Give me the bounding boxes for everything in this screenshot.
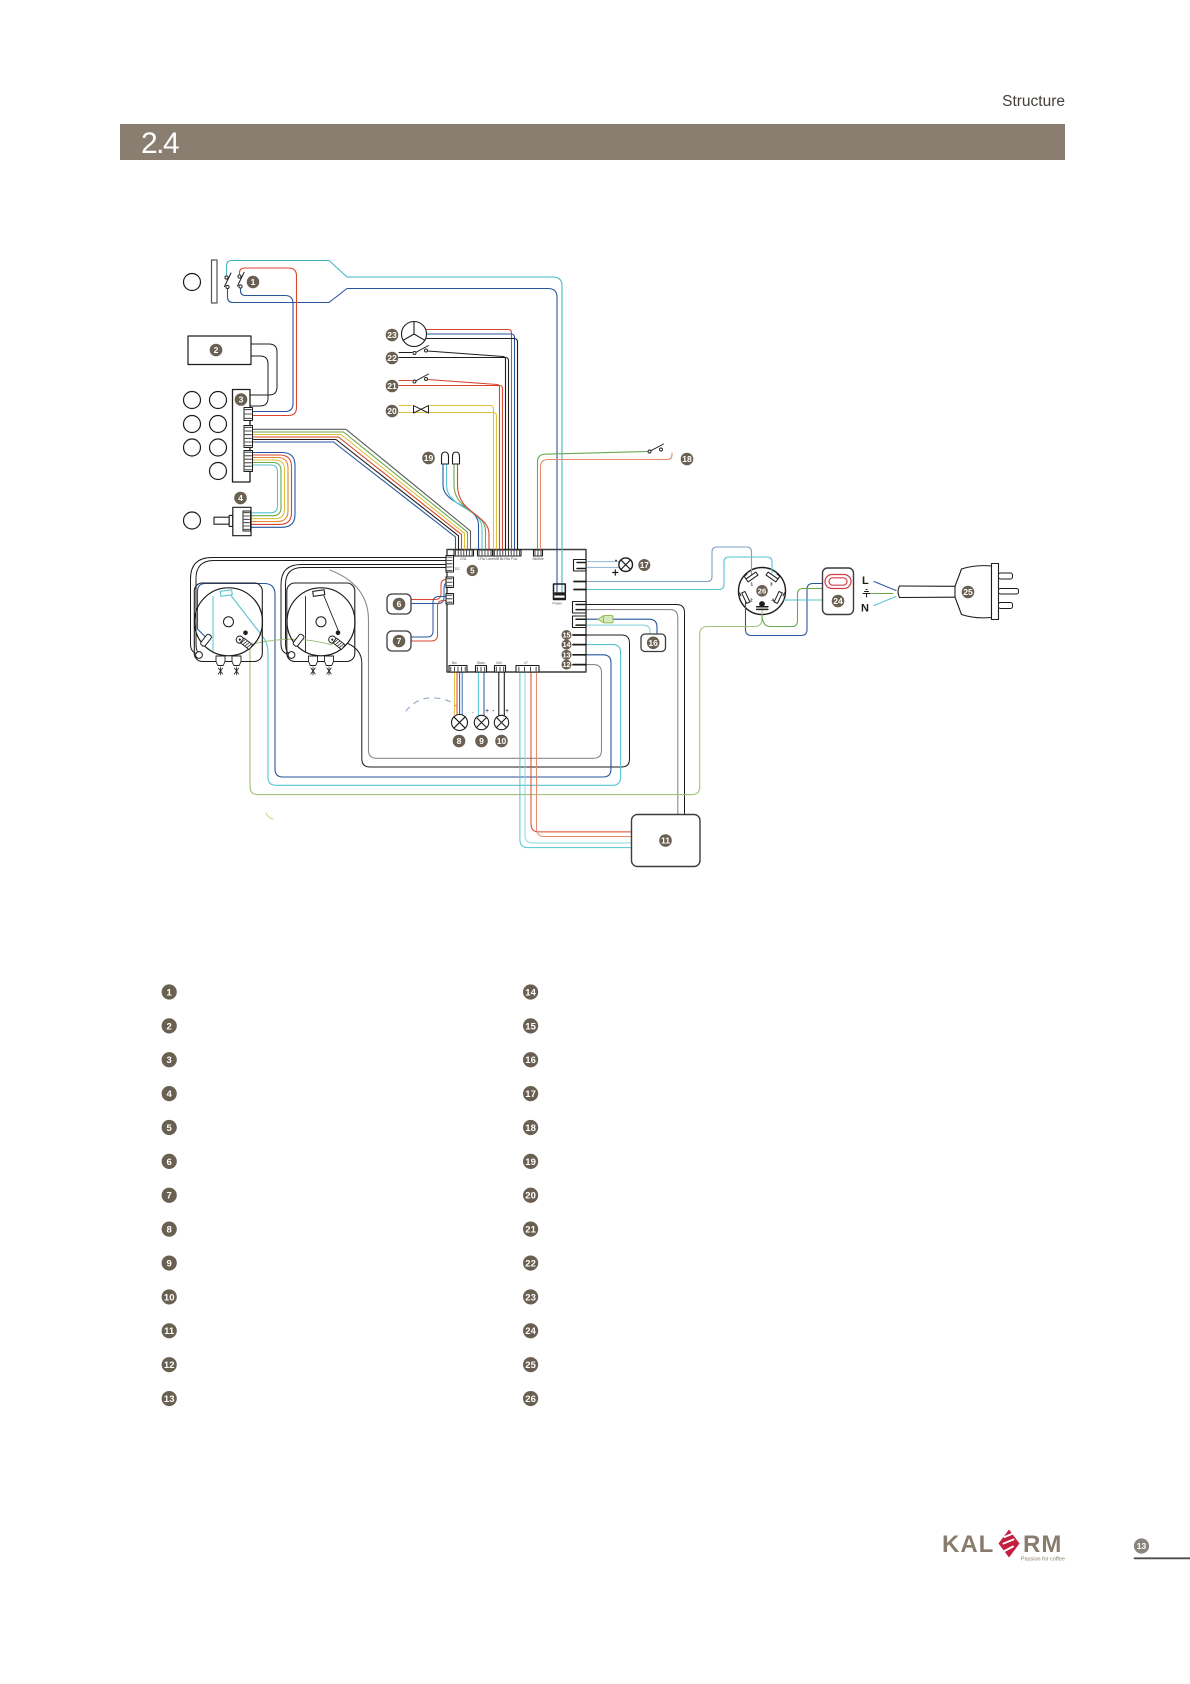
button circle bbox=[210, 416, 227, 433]
button circle bbox=[184, 416, 201, 433]
wire black DC to pump1 inner bbox=[196, 561, 447, 654]
svg-text:3: 3 bbox=[770, 582, 773, 587]
svg-text:23: 23 bbox=[525, 1292, 536, 1303]
legend item 26 bbox=[523, 1391, 538, 1406]
wire bundle connector3 to PCB CN1 bbox=[253, 435, 465, 553]
wire cyan pin14 wrap pump1 bbox=[231, 596, 621, 786]
pump P2 (right peristaltic pump) bbox=[287, 583, 355, 675]
green link pump1 clamp to pump2 clamp bbox=[252, 639, 332, 645]
legend item 11 bbox=[162, 1323, 177, 1338]
svg-text:Power: Power bbox=[553, 602, 563, 606]
wire bundle connector3 to PCB CN1 bbox=[253, 429, 471, 552]
legend item 13 bbox=[162, 1391, 177, 1406]
svg-text:DC: DC bbox=[455, 567, 460, 571]
legend item 19 bbox=[523, 1154, 538, 1169]
svg-text:.: . bbox=[472, 708, 474, 715]
legend item 22 bbox=[523, 1255, 538, 1270]
svg-text:21: 21 bbox=[525, 1225, 536, 1236]
svg-text:12: 12 bbox=[164, 1360, 175, 1371]
box 2 (brew unit drive) bbox=[188, 336, 251, 365]
wire blue Pw to box16 bbox=[612, 619, 657, 634]
wire black Tp to box11 bbox=[586, 605, 685, 815]
wire lightcyan Pw to box16 bbox=[586, 625, 650, 634]
pump P2 black interior line bbox=[305, 597, 307, 653]
socket 26 base circle bbox=[739, 568, 786, 615]
PCB bottom connector 24V bbox=[495, 666, 506, 673]
svg-text:N: N bbox=[861, 603, 869, 615]
legend item 25 bbox=[523, 1357, 538, 1372]
svg-text:15: 15 bbox=[525, 1021, 536, 1032]
wire bundle connector3 to PCB CN1 bbox=[253, 442, 456, 552]
svg-text:11: 11 bbox=[661, 836, 670, 846]
wire green ground lead bbox=[871, 593, 893, 595]
wire yellow to lamp8 bbox=[453, 671, 455, 715]
wire bundle connector3 to encoder4 bbox=[251, 460, 285, 519]
lamp 17 symbol bbox=[613, 558, 633, 575]
wire switch21 red upper bbox=[399, 380, 412, 382]
wire black DC to pump2 outer bbox=[281, 565, 447, 655]
legend item 15 bbox=[523, 1018, 538, 1033]
wire green PCB to switch18 bbox=[538, 452, 648, 552]
label 20 bbox=[386, 405, 399, 418]
svg-text:13: 13 bbox=[1137, 1541, 1147, 1551]
svg-text:19: 19 bbox=[525, 1157, 536, 1168]
svg-text:23: 23 bbox=[387, 330, 397, 340]
svg-text:22: 22 bbox=[525, 1258, 536, 1269]
svg-text:10: 10 bbox=[164, 1292, 175, 1303]
svg-text:14: 14 bbox=[563, 642, 571, 649]
svg-text:19: 19 bbox=[424, 453, 434, 463]
svg-text:CN1: CN1 bbox=[460, 557, 467, 561]
wire red box6 to PCB bbox=[411, 580, 446, 600]
PCB left connector DC bbox=[446, 556, 454, 573]
wire black DC to pump2 inner bbox=[286, 568, 448, 654]
svg-text:Bw: Bw bbox=[452, 661, 457, 665]
switch 18 contacts bbox=[648, 444, 664, 453]
wire bundle connector3 to encoder4 bbox=[251, 458, 288, 522]
valve 20 symbol bbox=[414, 406, 429, 413]
legend item 4 bbox=[162, 1086, 177, 1101]
PCB bottom tiny labels bbox=[452, 661, 528, 665]
Kalerm logo diamond bbox=[999, 1530, 1020, 1558]
legend item 23 bbox=[523, 1289, 538, 1304]
circle button top-left bbox=[184, 274, 201, 291]
PCB right connector lamp17 bbox=[574, 560, 587, 572]
wire bundle connector3 to encoder4 bbox=[251, 463, 281, 516]
fuse on Pw wire bbox=[598, 616, 613, 623]
wire blue L lead bbox=[874, 582, 896, 591]
svg-text:6: 6 bbox=[397, 599, 402, 609]
wire black box2 to connector3 upper bbox=[250, 344, 277, 395]
lamp 10 symbol bbox=[494, 715, 508, 729]
legend item 20 bbox=[523, 1188, 538, 1203]
box 11 bbox=[632, 815, 701, 867]
connector 3 pin block bottom bbox=[244, 451, 253, 472]
svg-text:2: 2 bbox=[750, 598, 753, 603]
svg-text:8: 8 bbox=[167, 1225, 172, 1236]
socket 26 slot 4 bbox=[774, 591, 784, 605]
wire switch22 black upper bbox=[399, 352, 412, 354]
wire gray pin12 wrap pump2 bbox=[330, 570, 602, 758]
svg-text:26: 26 bbox=[525, 1394, 536, 1405]
connector 3 pin block top bbox=[244, 408, 253, 421]
svg-text:4: 4 bbox=[238, 493, 243, 503]
wire switch21 red lower bbox=[399, 386, 503, 553]
PCB right pins RdoP bbox=[574, 582, 586, 590]
label 15 bbox=[562, 630, 572, 640]
footer rule bbox=[1135, 1557, 1190, 1559]
legend item 18 bbox=[523, 1120, 538, 1135]
svg-text:4: 4 bbox=[167, 1089, 173, 1100]
label 19 bbox=[422, 452, 435, 465]
svg-text:26: 26 bbox=[758, 587, 766, 596]
fan 23 symbol bbox=[402, 322, 427, 347]
label 5 bbox=[467, 565, 478, 576]
wire cyan to lamp9 bbox=[477, 671, 479, 716]
wire black to lamp10 bbox=[498, 671, 500, 716]
svg-text:20: 20 bbox=[525, 1191, 536, 1202]
svg-text:16: 16 bbox=[648, 638, 658, 648]
button circle bbox=[210, 439, 227, 456]
label 11 bbox=[659, 834, 672, 847]
legend item 21 bbox=[523, 1222, 538, 1237]
pump P2 black diagonal bbox=[324, 596, 340, 634]
connector 3 pin block mid bbox=[244, 426, 253, 448]
box 24 red ring bbox=[825, 575, 851, 589]
PCB top connector C bbox=[493, 550, 521, 556]
svg-text:11: 11 bbox=[164, 1326, 175, 1337]
legend item 24 bbox=[523, 1323, 538, 1338]
legend item 10 bbox=[162, 1289, 177, 1304]
label 6 bbox=[393, 598, 406, 611]
socket 26 slot 2 bbox=[740, 591, 750, 605]
wire bundle connector3 to encoder4 bbox=[251, 455, 292, 524]
legend item 14 bbox=[523, 984, 538, 999]
PCB power entry block bbox=[553, 584, 566, 606]
wire valve20 yellow upper bbox=[399, 405, 411, 407]
wire fan23 black bbox=[427, 339, 518, 553]
pump P1 cyan interior line bbox=[212, 597, 214, 653]
label 22 bbox=[386, 352, 399, 365]
svg-text:18: 18 bbox=[525, 1123, 536, 1134]
socket 26 pin numbers bbox=[750, 582, 775, 603]
svg-text:4: 4 bbox=[772, 598, 775, 603]
svg-text:Passion for coffee: Passion for coffee bbox=[1021, 1557, 1065, 1563]
svg-text:13: 13 bbox=[164, 1394, 175, 1405]
svg-text:24V: 24V bbox=[496, 661, 503, 665]
label 25 bbox=[962, 586, 975, 599]
svg-text:9: 9 bbox=[167, 1258, 172, 1269]
wire black pin15 wrap pump2 bbox=[348, 635, 630, 767]
wire red conn17 to box11 outer bbox=[537, 671, 632, 837]
label 3 bbox=[235, 393, 248, 406]
wire red switch1b to connector3 bbox=[240, 268, 297, 416]
button circle bbox=[210, 463, 227, 480]
box 7 bbox=[387, 631, 411, 651]
plug 25 pins bbox=[999, 573, 1019, 609]
PCB right connector Tp bbox=[573, 602, 587, 614]
svg-text:15: 15 bbox=[563, 633, 571, 640]
wire blue socket pin2 to box24 bbox=[746, 584, 823, 636]
legend item 12 bbox=[162, 1357, 177, 1372]
svg-text:-: - bbox=[492, 708, 495, 715]
svg-text:BkMole: BkMole bbox=[533, 557, 544, 561]
PCB left connector mid bbox=[446, 577, 454, 588]
label 10 bbox=[495, 735, 508, 748]
button circle bbox=[184, 439, 201, 456]
socket 26 ground pin bbox=[759, 601, 765, 607]
svg-text:+: + bbox=[505, 708, 509, 715]
svg-text:13: 13 bbox=[563, 652, 571, 659]
wire black box2 to connector3 lower bbox=[250, 356, 268, 406]
svg-text:MB Bt-Rlw F1w: MB Bt-Rlw F1w bbox=[494, 557, 518, 561]
wire dark blue flow-switch to PCB power bbox=[228, 289, 558, 593]
label 12 bbox=[562, 660, 572, 670]
legend item 2 bbox=[162, 1018, 177, 1033]
PCB top connector D bbox=[534, 550, 543, 556]
PCB right pins 12-15 bbox=[573, 635, 586, 665]
label 9 bbox=[475, 735, 488, 748]
label 23 bbox=[386, 329, 399, 342]
wire cyan N lead bbox=[874, 597, 896, 606]
svg-text:1: 1 bbox=[251, 277, 256, 287]
label 1 bbox=[247, 276, 260, 289]
wire LED19 blue bbox=[443, 464, 479, 552]
svg-text:5: 5 bbox=[167, 1123, 173, 1134]
svg-text:12: 12 bbox=[563, 662, 571, 669]
legend item 5 bbox=[162, 1120, 177, 1135]
PCB bottom connector Bw bbox=[449, 666, 467, 673]
lamp 17 wires bbox=[586, 561, 619, 563]
svg-text:1: 1 bbox=[167, 987, 173, 998]
lamp 8 symbol bbox=[452, 715, 468, 731]
PCB right connector Pw bbox=[573, 616, 587, 628]
svg-text:RM: RM bbox=[1023, 1531, 1062, 1558]
wire switch22 black lower bbox=[399, 358, 509, 553]
encoder 4 pin block bbox=[243, 511, 251, 531]
wire cyan conn17 to box11 outer bbox=[520, 671, 632, 848]
wire lightblue RdoP to socket pin1 bbox=[586, 547, 752, 582]
label 21 bbox=[386, 380, 399, 393]
wire bundle connector3 to encoder4 bbox=[251, 453, 295, 528]
wire blue Pw segment bbox=[586, 618, 598, 620]
wire blue to lamp9 bbox=[483, 671, 485, 716]
wire black DC to pump1 outer bbox=[191, 558, 448, 655]
wire blue box7 to PCB bbox=[411, 597, 446, 638]
label 18 bbox=[681, 453, 694, 466]
sensor bar bbox=[212, 260, 218, 303]
svg-text:6: 6 bbox=[167, 1157, 172, 1168]
wire green socket to box24 bbox=[762, 589, 823, 627]
scan artifact dashed arc bbox=[406, 698, 456, 711]
PCB left connector low bbox=[446, 594, 454, 605]
box 6 bbox=[387, 594, 411, 614]
encoder 4 body bbox=[233, 507, 251, 535]
wire valve20 yellow lower bbox=[399, 413, 497, 553]
plug 25 body bbox=[955, 564, 999, 620]
legend item 16 bbox=[523, 1052, 538, 1067]
label 2 bbox=[210, 344, 223, 357]
wire fan23 blue bbox=[427, 334, 515, 552]
wire blue to lamp8 bbox=[459, 671, 461, 715]
wire bundle connector3 to PCB CN1 bbox=[253, 432, 468, 552]
wire LED19 red bbox=[458, 464, 490, 552]
wire blue switch1b to connector3 bbox=[241, 289, 294, 412]
wire fan23 red bbox=[427, 330, 512, 553]
legend item 7 bbox=[162, 1188, 177, 1203]
wire blue2 to lamp8 bbox=[461, 671, 463, 715]
svg-text:22: 22 bbox=[387, 353, 397, 363]
svg-text:7: 7 bbox=[167, 1191, 172, 1202]
svg-text:9: 9 bbox=[479, 736, 484, 746]
wire LED19 cyan bbox=[447, 464, 483, 552]
wire blue box6 to PCB bbox=[411, 584, 446, 604]
svg-text:7: 7 bbox=[397, 636, 402, 646]
label 8 bbox=[453, 735, 466, 748]
label 17 bbox=[638, 559, 650, 571]
wire red to lamp8 bbox=[456, 671, 458, 715]
label 13 bbox=[562, 650, 572, 660]
label 14 bbox=[562, 640, 572, 650]
svg-text:25: 25 bbox=[525, 1360, 536, 1371]
wire LED19 green bbox=[454, 464, 486, 552]
svg-text:17: 17 bbox=[640, 561, 650, 570]
wire bundle connector3 to PCB CN1 bbox=[253, 440, 459, 553]
svg-text:20: 20 bbox=[387, 406, 397, 416]
page number circle 13 bbox=[1134, 1538, 1149, 1553]
lamp 9 symbol bbox=[474, 715, 488, 729]
svg-text:I-Flw Lane: I-Flw Lane bbox=[478, 557, 494, 561]
wire cyan socket pin4 to box24 bbox=[784, 599, 823, 601]
button circle bbox=[184, 512, 201, 529]
svg-text:10: 10 bbox=[497, 736, 507, 746]
legend item 3 bbox=[162, 1052, 177, 1067]
box 24 body bbox=[823, 568, 854, 615]
svg-text:+: + bbox=[485, 708, 489, 715]
scan artifact green tick bbox=[266, 813, 273, 819]
svg-text:1: 1 bbox=[751, 582, 754, 587]
PCB connector tiny labels bbox=[460, 557, 544, 561]
header label Structure bbox=[0, 93, 1065, 111]
svg-text:3: 3 bbox=[167, 1055, 172, 1066]
svg-text:8: 8 bbox=[457, 736, 462, 746]
svg-text:24: 24 bbox=[525, 1326, 536, 1337]
svg-text:3: 3 bbox=[239, 395, 244, 405]
wire blue pin13 wrap pump1 bbox=[198, 584, 612, 778]
encoder 4 shaft bbox=[214, 517, 229, 524]
wire red box7 to PCB bbox=[411, 601, 446, 642]
LED 19 left bbox=[442, 452, 449, 464]
wire bundle connector3 to encoder4 bbox=[251, 465, 278, 513]
svg-text:16: 16 bbox=[525, 1055, 536, 1066]
wire red conn17 to box11 inner bbox=[531, 671, 632, 832]
svg-text:5: 5 bbox=[470, 566, 475, 575]
wire black2 to lamp10 bbox=[503, 671, 505, 716]
svg-text:2: 2 bbox=[167, 1021, 172, 1032]
button circle bbox=[184, 392, 201, 409]
switch S1a contacts and lever bbox=[225, 273, 232, 289]
legend item 6 bbox=[162, 1154, 177, 1169]
wire bundle connector3 to PCB CN1 bbox=[253, 437, 462, 552]
legend item 9 bbox=[162, 1255, 177, 1270]
svg-text:17: 17 bbox=[525, 1089, 536, 1100]
wire gray Tp to box11 bbox=[586, 610, 678, 815]
svg-text:KAL: KAL bbox=[942, 1531, 994, 1558]
svg-text:14: 14 bbox=[525, 987, 536, 998]
wire cyan RdoP to socket pin3 bbox=[586, 557, 772, 590]
svg-text:18: 18 bbox=[682, 454, 692, 464]
label 7 bbox=[393, 635, 406, 648]
socket 26 slot 3 bbox=[766, 569, 780, 582]
section bar 2.4 bbox=[120, 124, 1065, 160]
encoder 4 shaft collar bbox=[229, 515, 233, 526]
PCB board 5 base bbox=[447, 550, 586, 673]
svg-text:L: L bbox=[862, 575, 869, 587]
switch S1b contacts and lever bbox=[238, 273, 245, 289]
ground symbol bbox=[863, 590, 870, 598]
svg-text:Stam: Stam bbox=[477, 661, 485, 665]
svg-text:17: 17 bbox=[524, 661, 528, 665]
label 24 bbox=[832, 595, 845, 608]
svg-text:21: 21 bbox=[387, 381, 397, 391]
button circle bbox=[210, 392, 227, 409]
wire cyan conn17 to box11 inner bbox=[525, 671, 632, 843]
svg-text:25: 25 bbox=[963, 587, 973, 597]
wire salmon switch18 return bbox=[541, 453, 673, 551]
plug 25 cable bbox=[898, 586, 955, 598]
socket 26 slot 1 bbox=[744, 569, 758, 582]
switch 22 contacts bbox=[413, 346, 429, 355]
svg-text:24: 24 bbox=[833, 596, 843, 606]
label 26 bbox=[756, 585, 768, 597]
legend item 17 bbox=[523, 1086, 538, 1101]
label 4 bbox=[234, 492, 247, 505]
label 16 bbox=[647, 637, 660, 650]
PCB bottom connector Stam bbox=[476, 666, 487, 673]
wire teal flow-switch to PCB power bbox=[227, 261, 563, 593]
connector panel 3 bbox=[233, 390, 251, 483]
switch 21 contacts bbox=[413, 374, 429, 383]
pump P1 (left peristaltic pump) bbox=[194, 583, 262, 675]
LED 19 right bbox=[453, 452, 460, 464]
PCB top connector CN1 bbox=[454, 550, 474, 556]
PCB top connector B bbox=[478, 550, 493, 556]
box 16 bbox=[641, 634, 666, 652]
wire green socket ground long bbox=[250, 610, 762, 795]
PCB bottom connector 17 bbox=[516, 666, 539, 673]
svg-text:2: 2 bbox=[214, 345, 219, 355]
legend item 8 bbox=[162, 1222, 177, 1237]
legend item 1 bbox=[162, 984, 177, 999]
